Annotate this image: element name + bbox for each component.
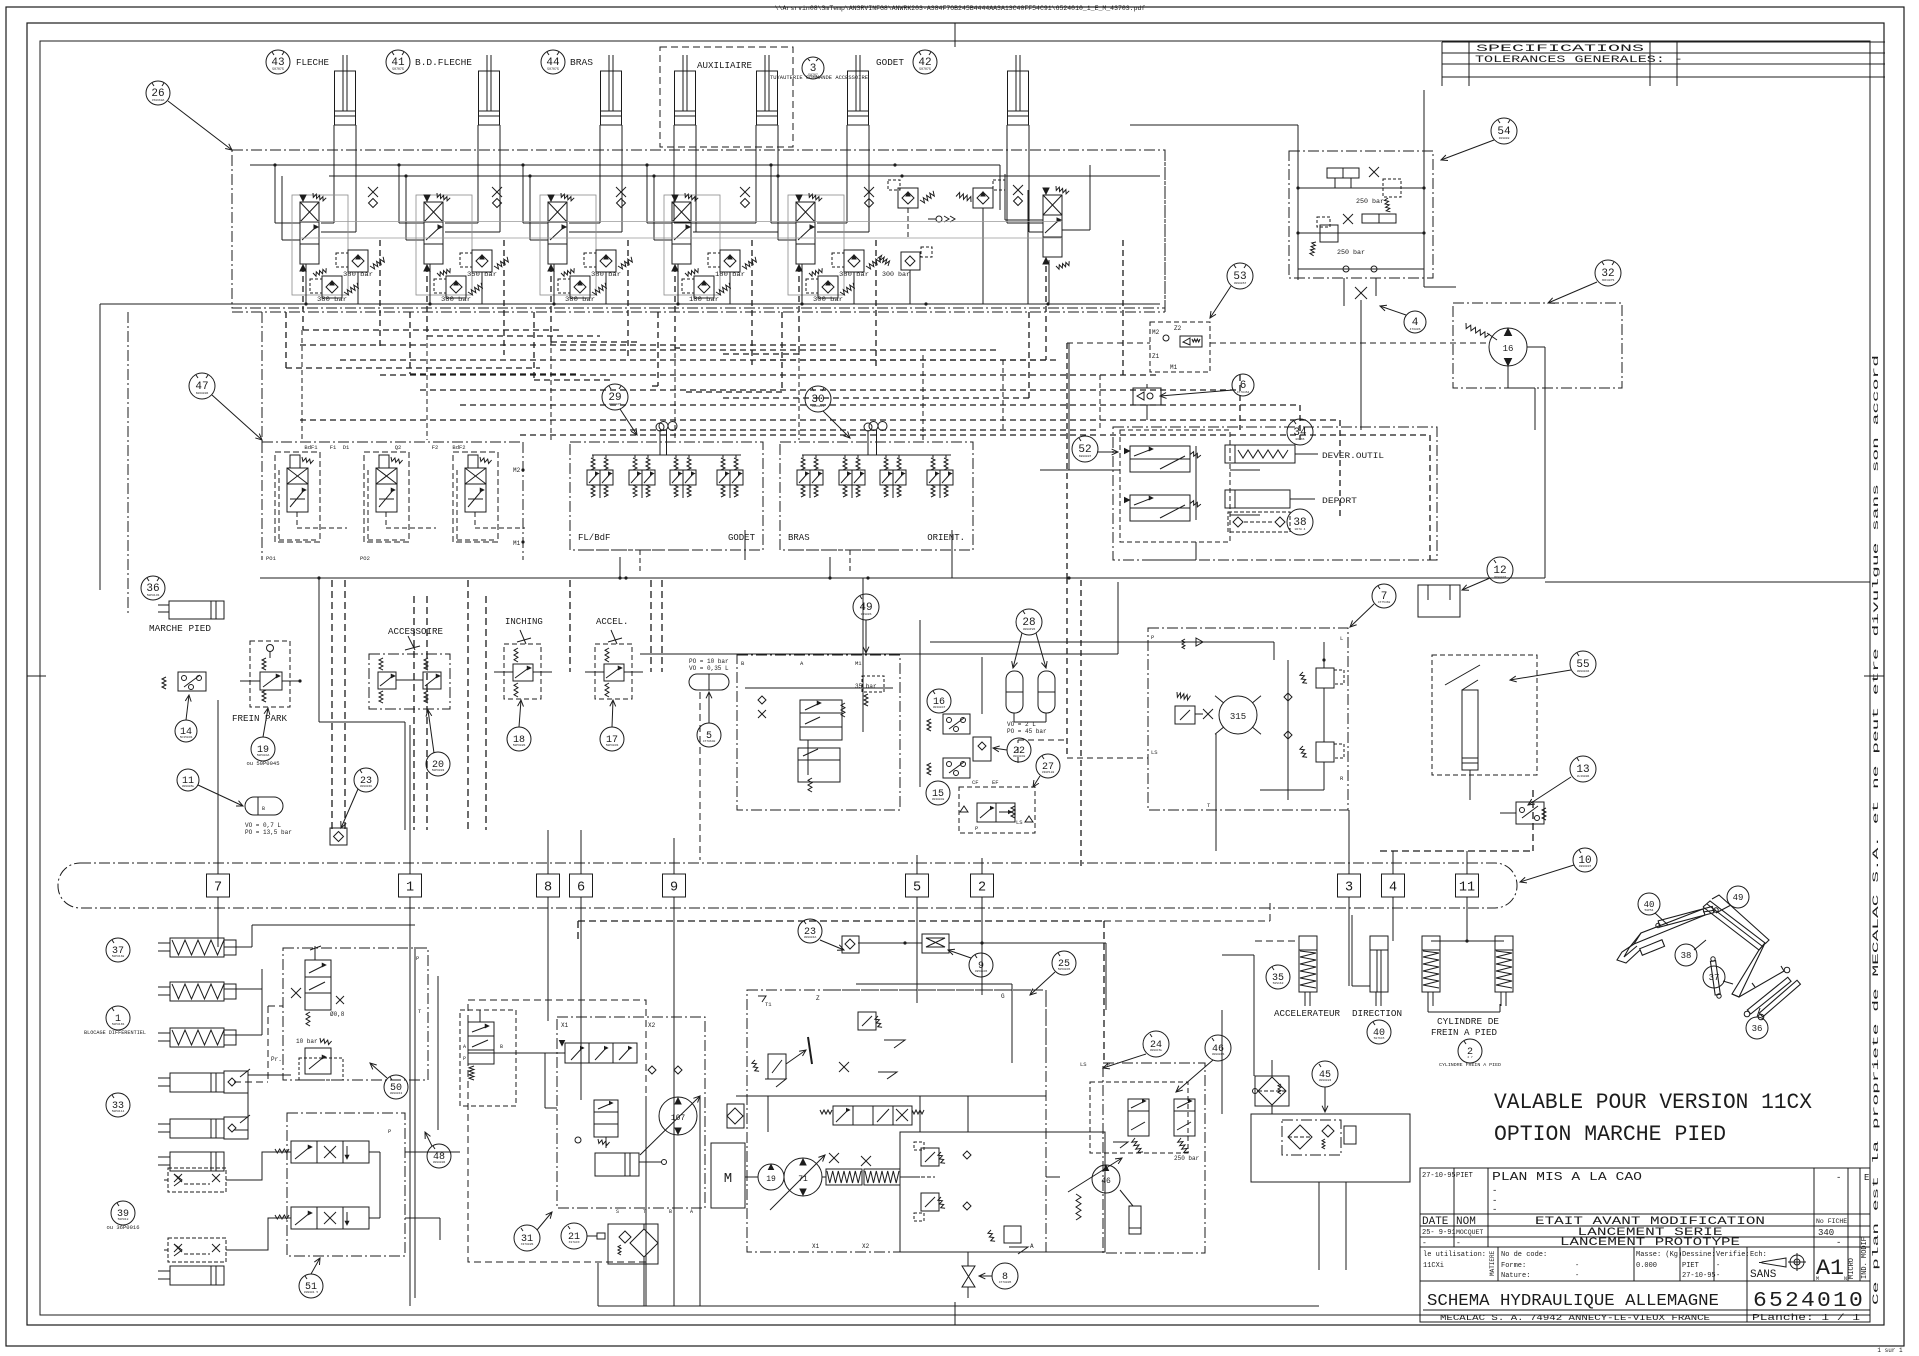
mid dashed verticals	[332, 580, 651, 830]
title block texts	[1422, 1170, 1869, 1323]
svg-text:3090006: 3090006	[433, 1161, 446, 1164]
relief valve upper 350 bar	[460, 250, 508, 278]
svg-text:3030048: 3030048	[932, 798, 945, 801]
svg-text:Ce plan est la propriete de ME: Ce plan est la propriete de MECALAC S.A.…	[1872, 355, 1881, 1305]
svg-text:Ech:: Ech:	[1750, 1251, 1767, 1259]
svg-text:GODET: GODET	[876, 58, 905, 68]
accel valve	[585, 617, 643, 699]
pilot line	[720, 240, 1123, 398]
svg-text:TUYAUTERIE COMMANDE ACCESSOIRE: TUYAUTERIE COMMANDE ACCESSOIRE	[770, 74, 869, 81]
directional valve section 1	[300, 193, 326, 276]
relief valve 6 upper left	[888, 180, 934, 208]
bank valve outline	[364, 452, 409, 542]
wire valve drain	[306, 264, 358, 304]
cylinder MARCHE PIED	[149, 601, 224, 634]
leader 10	[1520, 865, 1574, 883]
svg-text:CF: CF	[972, 779, 979, 786]
svg-text:309008I: 309008I	[1319, 1079, 1332, 1082]
modulation valve	[575, 1100, 618, 1148]
svg-text:M2: M2	[1152, 329, 1160, 336]
svg-text:Ø0,8: Ø0,8	[330, 1011, 345, 1018]
svg-text:ACCESSOIRE: ACCESSOIRE	[388, 627, 443, 637]
svg-text:50%163: 50%163	[1273, 982, 1284, 985]
node label 23	[354, 768, 378, 792]
svg-text:10 bar: 10 bar	[296, 1038, 318, 1045]
svg-text:38: 38	[1681, 951, 1692, 961]
svg-text:1: 1	[406, 881, 414, 896]
svg-text:250 bar: 250 bar	[1337, 249, 1365, 256]
svg-text:46: 46	[1101, 1177, 1111, 1186]
pedal FREIN B	[1495, 936, 1513, 1006]
svg-text:47704S4: 47704S4	[1237, 391, 1250, 394]
svg-text:380 bar: 380 bar	[565, 296, 595, 303]
svg-text:P: P	[416, 955, 419, 962]
accumulator 5	[689, 658, 729, 690]
svg-text:L: L	[1340, 635, 1343, 642]
svg-text:SCHEMA HYDRAULIQUE ALLEMAGNE: SCHEMA HYDRAULIQUE ALLEMAGNE	[1427, 1292, 1719, 1311]
leader 48	[425, 1132, 432, 1146]
svg-text:7: 7	[214, 881, 222, 896]
leader 7	[1350, 604, 1374, 627]
svg-text:50P0168: 50P0168	[112, 955, 125, 958]
cylinder GODET2	[1008, 55, 1029, 125]
svg-text:P: P	[1107, 1061, 1110, 1068]
relief valve 300 bar right	[877, 247, 932, 304]
svg-text:5050045: 5050045	[1058, 968, 1071, 971]
text ACCELERATEUR	[1274, 1009, 1341, 1019]
node label 22	[1007, 738, 1031, 762]
test point	[616, 187, 626, 208]
pedal ACCELERATEUR	[1299, 936, 1317, 1006]
svg-text:3: 3	[1345, 881, 1353, 896]
svg-text:4 7: 4 7	[1467, 1056, 1473, 1059]
check chain	[928, 216, 955, 222]
pedal wires	[1255, 915, 1504, 986]
pilot bank wires	[368, 470, 436, 540]
svg-text:VO = 0,7 L: VO = 0,7 L	[245, 822, 281, 829]
leader 45	[1322, 1087, 1328, 1112]
svg-text:4770640: 4770640	[703, 740, 716, 743]
pressure reducer pair	[839, 455, 865, 498]
leader 51	[311, 1258, 320, 1274]
cylinder 33b	[158, 1115, 250, 1139]
band lower dash boundary	[232, 311, 1165, 313]
title block	[1420, 1168, 1870, 1322]
text TUYAUTERIE COMMANDE ACCESSOIRE	[770, 74, 869, 81]
steering LS dashed	[1018, 740, 1148, 763]
svg-text:X2: X2	[648, 1022, 656, 1029]
svg-text:27-10-95: 27-10-95	[1422, 1172, 1456, 1180]
svg-text:B: B	[500, 1044, 503, 1050]
node label 40b	[1367, 1020, 1391, 1044]
cylinder 33a	[158, 1069, 250, 1093]
node label 2b	[1439, 1039, 1501, 1068]
svg-text:PLanche: 1 / 1: PLanche: 1 / 1	[1752, 1312, 1860, 1323]
svg-text:Forme:: Forme:	[1501, 1262, 1526, 1270]
leader 8	[979, 1273, 992, 1279]
svg-text:VO = 2 L: VO = 2 L	[1007, 721, 1036, 728]
svg-text:A: A	[1030, 1243, 1034, 1250]
excavator arm sketch	[1617, 895, 1800, 1020]
spring cylinder blocage 2	[158, 982, 236, 1001]
relief valve upper 180 bar	[708, 250, 756, 278]
pump 107	[640, 1096, 700, 1155]
svg-text:-: -	[1716, 1272, 1720, 1280]
svg-text:250 bar: 250 bar	[1174, 1155, 1200, 1162]
node label 40c	[1638, 893, 1668, 925]
node label 53	[1227, 263, 1253, 289]
supply wire	[275, 165, 300, 240]
svg-text:No de code:: No de code:	[1501, 1251, 1547, 1259]
svg-text:FREIN PARK: FREIN PARK	[232, 714, 288, 724]
leader 28b	[1036, 633, 1047, 668]
svg-text:M1: M1	[513, 540, 521, 547]
brake lever valve 14	[162, 672, 206, 691]
svg-text:3L39006: 3L39006	[1577, 775, 1590, 778]
wire valve drain	[678, 264, 730, 304]
wire cylinder to valve	[693, 125, 778, 232]
svg-text:50707S: 50707S	[919, 67, 931, 71]
svg-text:330P102: 330P102	[1042, 771, 1055, 774]
svg-text:P: P	[1151, 634, 1154, 641]
svg-text:NOM: NOM	[1456, 1216, 1476, 1228]
cylinder BRAS	[601, 55, 622, 125]
svg-text:30900FA: 30900FA	[804, 936, 817, 939]
supply wire	[399, 165, 424, 240]
pressure reducer top	[752, 1037, 812, 1087]
cylinder GODET1	[848, 55, 869, 125]
svg-text:X1: X1	[812, 1243, 820, 1250]
leader 14	[185, 695, 191, 720]
bus tag 11	[1456, 874, 1479, 897]
svg-text:250 bar: 250 bar	[1356, 198, 1384, 205]
svg-text:BdF2: BdF2	[452, 444, 465, 451]
svg-text:-: -	[1422, 1239, 1427, 1248]
svg-text:-: -	[1492, 1186, 1497, 1196]
leader 4	[1380, 305, 1406, 315]
manifold drain wires	[580, 423, 952, 580]
leader 25	[1030, 972, 1055, 995]
svg-text:-: -	[1836, 1238, 1841, 1248]
node label 49	[853, 594, 879, 620]
directional valve section 6	[1043, 186, 1069, 269]
svg-text:30900S: 30900S	[861, 613, 872, 616]
svg-text:6060006: 6060006	[196, 392, 209, 395]
svg-text:C06607S: C06607S	[812, 405, 825, 408]
node label 38b	[1287, 509, 1313, 535]
bus tag 8	[537, 874, 560, 897]
svg-text:M: M	[1816, 1276, 1819, 1282]
svg-text:C50660A: C50660A	[152, 99, 165, 102]
svg-text:X37008S: X37008S	[521, 1243, 534, 1246]
text BRAS	[570, 58, 593, 68]
svg-text:25- 9-91: 25- 9-91	[1422, 1229, 1456, 1237]
node label 18	[507, 727, 531, 751]
bus tag 4	[1382, 874, 1405, 897]
supply wire	[771, 165, 796, 240]
svg-text:5: 5	[913, 881, 921, 896]
node label 10	[1573, 848, 1597, 872]
pilot bank labels	[304, 444, 465, 451]
pilot line	[648, 240, 752, 386]
svg-text:Z1: Z1	[1152, 353, 1160, 360]
directional valve section 2	[424, 193, 450, 276]
node label 20	[426, 752, 450, 776]
shift valve	[545, 1041, 637, 1064]
svg-text:F1: F1	[330, 444, 337, 451]
pilot line	[684, 240, 876, 392]
relief valve lower 380 bar	[310, 276, 358, 303]
wire valve drain	[802, 264, 854, 304]
spring cylinder blocage 1	[158, 938, 236, 957]
pressure switch 15	[927, 758, 970, 778]
bank valve outline	[453, 452, 498, 542]
leader 23	[341, 789, 358, 828]
directional valve section 4	[672, 193, 698, 276]
svg-text:BRAS: BRAS	[570, 58, 593, 68]
manifold labels	[578, 533, 756, 543]
relief top right	[839, 1012, 905, 1079]
supply wire	[523, 165, 548, 240]
small cylinder	[595, 1153, 667, 1176]
svg-text:3090007: 3090007	[1494, 576, 1507, 579]
relief valve lower 380 bar	[558, 276, 606, 303]
frein bracket	[1428, 1004, 1500, 1012]
svg-text:M1: M1	[855, 660, 862, 667]
node label 50	[384, 1075, 408, 1099]
svg-text:M: M	[724, 1171, 732, 1187]
spring cylinder blocage 3	[158, 1028, 236, 1047]
leader 24	[1103, 1054, 1146, 1069]
pressure reducer pair	[717, 455, 743, 498]
svg-text:DATE: DATE	[1422, 1216, 1449, 1228]
leader 32	[1548, 282, 1597, 303]
svg-text:6524010: 6524010	[1753, 1290, 1865, 1313]
wires block52	[1040, 343, 1196, 560]
svg-text:\\Arsrvin08\SmTemp\ANSRVINFG8\: \\Arsrvin08\SmTemp\ANSRVINFG8\ANWRK203-A…	[775, 5, 1146, 12]
mid boundary dashdot	[262, 442, 523, 560]
title block scale symbol	[1759, 1253, 1806, 1271]
svg-text:AUXILIAIRE: AUXILIAIRE	[697, 61, 752, 71]
pressure switch 16	[927, 714, 970, 734]
relief valve upper 380 bar	[336, 250, 384, 278]
reservoir wires	[1222, 955, 1346, 1270]
svg-text:X37ACO: X37ACO	[569, 1241, 580, 1244]
cylinder DEVER.OUTIL	[1225, 445, 1384, 463]
test point	[368, 187, 378, 208]
svg-text:50P6003: 50P6003	[432, 769, 445, 772]
manifold labels	[788, 533, 965, 543]
leader 17	[610, 700, 616, 727]
svg-text:27-10-95: 27-10-95	[1682, 1272, 1716, 1280]
svg-text:380 bar: 380 bar	[317, 296, 347, 303]
svg-text:No FICHE: No FICHE	[1816, 1218, 1847, 1225]
svg-text:CYLINDRE DE: CYLINDRE DE	[1437, 1017, 1499, 1027]
pump 71	[770, 1155, 825, 1210]
leader 46	[1176, 1060, 1213, 1092]
svg-text:340: 340	[1818, 1228, 1834, 1238]
node label 36	[141, 576, 165, 600]
wire valve drain	[430, 264, 482, 304]
accumulator 11	[245, 797, 292, 836]
svg-text:50P004A: 50P004A	[257, 754, 270, 757]
accessoire block	[369, 627, 450, 709]
node label 25	[1052, 951, 1076, 975]
priority valve block	[959, 779, 1035, 833]
node label 24	[1143, 1031, 1169, 1057]
relief bottom right b8	[988, 1226, 1028, 1254]
steering relief pair lower	[1284, 731, 1344, 762]
node label 37b	[106, 938, 130, 962]
svg-text:OPTION MARCHE PIED: OPTION MARCHE PIED	[1494, 1122, 1726, 1147]
svg-text:P: P	[388, 1128, 391, 1135]
pump 46	[1068, 1158, 1141, 1234]
node label 13	[1570, 756, 1596, 782]
wire valve drain	[554, 264, 606, 304]
svg-text:19: 19	[766, 1175, 776, 1184]
bowtie valve 9b	[922, 934, 949, 953]
node label 21	[561, 1223, 587, 1249]
cylinder FLECHE	[335, 55, 356, 125]
svg-text:5F3504S: 5F3504S	[180, 736, 193, 739]
node label 8	[992, 1263, 1018, 1289]
node label 19	[246, 737, 279, 767]
leader 54	[1441, 140, 1494, 161]
relief valve 6 upper right	[956, 180, 1005, 208]
relief valve upper 380 bar	[832, 250, 880, 278]
node label 7	[1372, 584, 1396, 608]
node label 49b	[1716, 886, 1749, 913]
pressure reducer pair	[927, 455, 953, 498]
svg-text:-: -	[1456, 1239, 1461, 1248]
svg-text:PIET: PIET	[1456, 1172, 1473, 1180]
svg-text:6990007: 6990007	[1079, 455, 1092, 458]
svg-text:M2: M2	[513, 467, 521, 474]
node label 39b	[106, 1201, 139, 1231]
node label 42	[913, 50, 937, 74]
svg-text:50P014S: 50P014S	[147, 594, 160, 597]
M2 M1 labels	[513, 467, 525, 547]
svg-text:30900S7: 30900S7	[1234, 282, 1247, 285]
node label 12	[1487, 557, 1513, 583]
reservoir box	[1251, 1114, 1410, 1182]
frein park valve	[232, 641, 302, 724]
svg-text:CYLINDRE FREIN A PIED: CYLINDRE FREIN A PIED	[1439, 1062, 1501, 1068]
svg-text:Nature:: Nature:	[1501, 1272, 1530, 1280]
svg-text:MATIERE: MATIERE	[1489, 1250, 1496, 1276]
valve 48 box	[460, 1010, 516, 1106]
svg-text:50P608S: 50P608S	[513, 744, 526, 747]
svg-text:MOCQUET: MOCQUET	[1456, 1229, 1483, 1236]
svg-text:A: A	[690, 1209, 693, 1215]
svg-text:Z: Z	[816, 995, 820, 1002]
svg-text:DIRECTION: DIRECTION	[1352, 1009, 1402, 1019]
text DIRECTION	[1352, 1009, 1402, 1019]
node label 17	[600, 727, 624, 751]
node label 33b	[106, 1093, 130, 1117]
leader 30	[823, 411, 850, 438]
leader 13	[1528, 777, 1571, 805]
svg-text:50P016S: 50P016S	[112, 1023, 125, 1026]
main long wires	[100, 150, 1545, 1306]
node label 47	[189, 373, 215, 399]
wire cylinder to valve	[674, 125, 696, 232]
extra curtain dashed verticals	[345, 580, 700, 860]
bus tag 7	[207, 874, 230, 897]
leader 26	[168, 101, 232, 150]
cylinder AUX1	[675, 55, 696, 125]
svg-text:50707S: 50707S	[392, 67, 404, 71]
node label 6	[1232, 374, 1254, 396]
text B.D.FLECHE	[415, 58, 472, 68]
test point	[492, 187, 502, 208]
svg-text:N: N	[1844, 1276, 1847, 1282]
bus tag 6	[570, 874, 593, 897]
deviation assembly boundary	[1113, 427, 1437, 560]
check bridge upper	[164, 1168, 232, 1192]
node label 4	[1404, 311, 1426, 333]
cylinder DEPORT	[1225, 490, 1357, 508]
filter block 21	[608, 1224, 658, 1264]
svg-text:4770005: 4770005	[999, 1281, 1012, 1284]
leader 18	[518, 700, 524, 727]
relief valve upper 380 bar	[584, 250, 632, 278]
pressure reducer pair	[587, 455, 613, 498]
transmission outer dashed box	[468, 1000, 705, 1262]
node label 37c	[1703, 966, 1733, 988]
svg-text:4775468: 4775468	[1378, 601, 1391, 604]
svg-text:PO = 10 bar: PO = 10 bar	[689, 658, 729, 665]
node label 52	[1072, 436, 1098, 462]
svg-text:TOLERANCES GENERALES: -: TOLERANCES GENERALES: -	[1475, 54, 1683, 66]
svg-text:49: 49	[1733, 893, 1744, 903]
valve block 51	[275, 1113, 405, 1256]
svg-text:FLECHE: FLECHE	[296, 58, 329, 68]
wire cylinder to valve	[1007, 125, 1043, 232]
svg-text:4: 4	[1389, 881, 1397, 896]
relief valve lower 180 bar	[682, 276, 730, 303]
svg-text:MICRO: MICRO	[1848, 1258, 1856, 1279]
orifice 22	[973, 737, 991, 761]
svg-text:MECALAC S. A. 74942 ANNECY-LE-: MECALAC S. A. 74942 ANNECY-LE-VIEUX FRAN…	[1440, 1313, 1710, 1323]
relief valve lower 300 bar	[806, 276, 854, 303]
svg-text:PO = 45 bar: PO = 45 bar	[1007, 728, 1047, 735]
node label 3	[802, 57, 824, 79]
svg-text:1 sur 1: 1 sur 1	[1877, 1347, 1903, 1354]
text PO2	[360, 555, 370, 562]
svg-text:VO = 0,35 L: VO = 0,35 L	[689, 665, 729, 672]
svg-text:300 bar: 300 bar	[813, 296, 843, 303]
svg-text:B: B	[669, 1209, 672, 1215]
svg-text:PLAN MIS A LA CAO: PLAN MIS A LA CAO	[1492, 1170, 1642, 1184]
pressure reducer pair	[797, 455, 823, 498]
svg-text:11: 11	[1459, 881, 1475, 896]
section 6 wires	[908, 165, 1090, 304]
svg-text:507645: 507645	[1374, 1037, 1385, 1040]
svg-text:3090CSL: 3090CSL	[1150, 1049, 1163, 1052]
svg-text:LANCEMENT PROTOTYPE: LANCEMENT PROTOTYPE	[1560, 1237, 1741, 1249]
svg-text:309000S: 309000S	[1212, 1053, 1225, 1056]
deviation valve block	[1120, 430, 1260, 542]
svg-text:P: P	[463, 1056, 466, 1062]
svg-text:50P604S: 50P604S	[606, 744, 619, 747]
leader 29	[620, 409, 637, 435]
node label 9b	[948, 949, 993, 977]
leader 49	[863, 620, 869, 653]
svg-text:PO = 13,5 bar: PO = 13,5 bar	[245, 829, 292, 836]
steering wires	[1216, 642, 1326, 851]
node label 26	[146, 81, 170, 105]
